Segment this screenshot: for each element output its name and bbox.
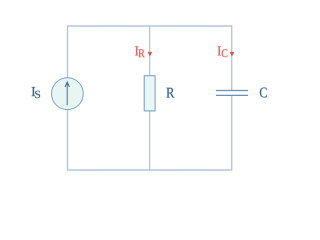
- resistor R: [144, 76, 155, 111]
- label IC: [217, 46, 227, 57]
- wire middle upper: [149, 26, 151, 76]
- wire top: [68, 25, 232, 27]
- wire left upper: [67, 25, 69, 78]
- current arrow IC: [230, 52, 235, 57]
- wire bottom: [68, 169, 232, 171]
- label IR: [135, 46, 145, 57]
- wire middle lower: [149, 111, 151, 170]
- label IS: [32, 87, 40, 98]
- wire left lower: [67, 110, 69, 171]
- current arrow IR: [148, 52, 153, 57]
- label C: [260, 88, 267, 98]
- wire right upper: [231, 25, 233, 90]
- label R: [166, 88, 174, 98]
- current source IS: [52, 78, 84, 110]
- wire right lower: [231, 96, 233, 171]
- capacitor C: [216, 91, 248, 96]
